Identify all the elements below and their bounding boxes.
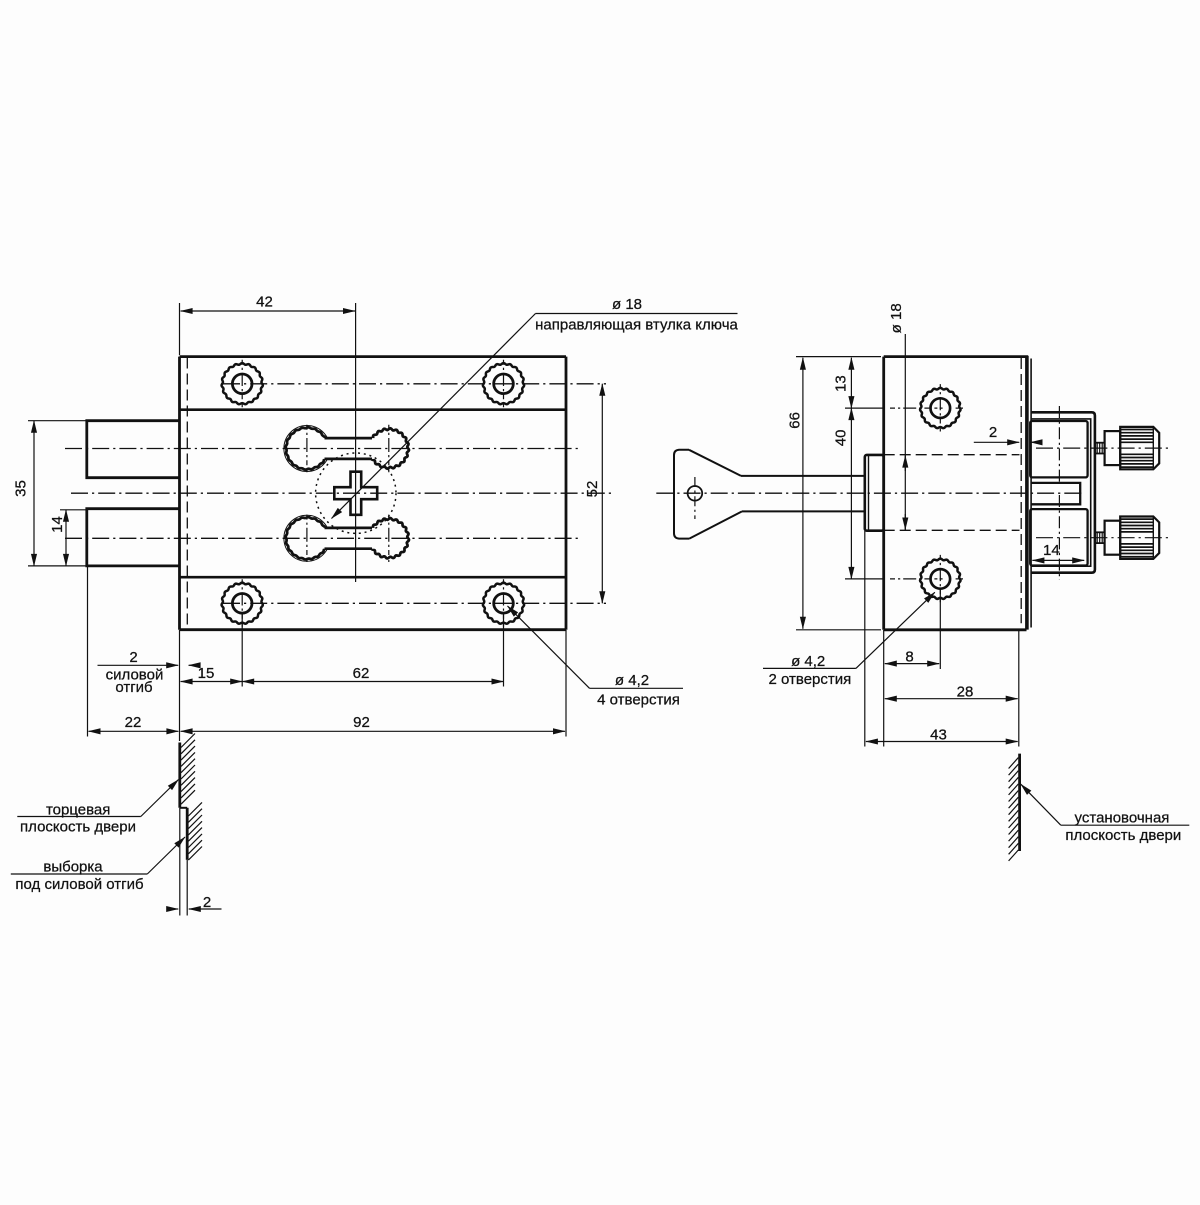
dimension 14 (lower prong) bbox=[49, 510, 86, 566]
dimension 14 (block width) bbox=[1032, 542, 1084, 560]
dimension 15 bbox=[181, 665, 243, 682]
svg-text:ø 4,2: ø 4,2 bbox=[615, 672, 649, 689]
right view: lock body side bbox=[884, 357, 1028, 630]
hatching mounting wall bbox=[1009, 758, 1019, 861]
svg-text:плоскость двери: плоскость двери bbox=[1065, 827, 1181, 844]
dimension 2 (power bend) bbox=[98, 649, 200, 696]
dimension 13 bbox=[832, 358, 882, 408]
screw hole bottom-left (o4.2) bbox=[222, 579, 263, 627]
leader o18 guide bushing bbox=[332, 296, 739, 519]
screw hole top-right (o4.2) bbox=[483, 360, 524, 408]
center line upper keyhole row bbox=[65, 448, 581, 450]
hidden line body right face bbox=[1020, 358, 1022, 623]
left view: top strip fold line bbox=[180, 408, 567, 411]
lower block center lines bbox=[1058, 495, 1060, 580]
screw hole bottom-right (o4.2) bbox=[483, 579, 524, 627]
svg-text:ø 4,2: ø 4,2 bbox=[791, 653, 825, 670]
guide bushing dotted circle o18 bbox=[316, 453, 396, 533]
leader mounting plane label bbox=[1021, 784, 1190, 844]
bolt upper prong bbox=[87, 421, 180, 478]
dimension 2 (recess depth) bbox=[170, 894, 222, 911]
key head bbox=[674, 450, 742, 539]
svg-text:43: 43 bbox=[930, 726, 947, 743]
center line top screw row bbox=[223, 383, 606, 385]
screw hole top-left (o4.2) bbox=[222, 360, 263, 408]
svg-text:торцевая: торцевая bbox=[46, 802, 110, 819]
svg-text:2: 2 bbox=[203, 894, 211, 911]
dimension 62 bbox=[242, 614, 503, 687]
svg-text:42: 42 bbox=[256, 294, 273, 311]
left view: lock body front bbox=[180, 357, 567, 630]
svg-text:отгиб: отгиб bbox=[115, 679, 152, 696]
dimension 66 bbox=[787, 357, 882, 630]
leader o4.2 two holes bbox=[763, 592, 935, 688]
svg-text:28: 28 bbox=[957, 684, 974, 701]
mounting plane wall bbox=[1018, 754, 1021, 851]
mounting plate edge (thick) bbox=[1025, 356, 1029, 630]
svg-text:плоскость двери: плоскость двери bbox=[20, 819, 136, 836]
svg-text:2: 2 bbox=[129, 649, 137, 666]
svg-text:направляющая втулка ключа: направляющая втулка ключа bbox=[535, 317, 738, 334]
dimension 52 bbox=[584, 384, 602, 604]
bolt lower prong bbox=[87, 509, 180, 566]
svg-text:52: 52 bbox=[584, 481, 601, 498]
dimension 8 bbox=[885, 589, 941, 670]
svg-text:14: 14 bbox=[1043, 542, 1060, 559]
svg-text:4 отверстия: 4 отверстия bbox=[597, 692, 680, 709]
hidden line bushing bottom bbox=[884, 529, 1020, 531]
mounting plate inner edge bbox=[1030, 359, 1032, 628]
center line bottom screw row bbox=[223, 602, 606, 604]
left view: hidden bend line bbox=[186, 358, 188, 630]
svg-text:под силовой отгиб: под силовой отгиб bbox=[15, 876, 143, 893]
key shaft bottom bbox=[742, 510, 864, 512]
key shaft top bbox=[741, 475, 864, 477]
dimension 40 bbox=[832, 408, 882, 579]
latch bracket outer bbox=[1031, 412, 1095, 572]
upper slider block bbox=[1030, 421, 1087, 477]
dimension 43 bbox=[865, 531, 1018, 747]
vertical center/extension line through cross bbox=[355, 303, 357, 582]
screw hole lower right view (o4.2) bbox=[890, 555, 963, 603]
upper block center lines bbox=[1058, 406, 1060, 485]
hatching door end plane bbox=[181, 734, 195, 805]
door end plane (wall) bbox=[180, 743, 187, 860]
extension lines below wall bbox=[180, 808, 187, 916]
key cross aperture bbox=[334, 472, 377, 515]
latch bracket inner bbox=[1031, 419, 1091, 566]
svg-text:ø 18: ø 18 bbox=[612, 296, 642, 313]
screw hole upper right view (o4.2) bbox=[890, 384, 963, 432]
bolt bar cross-section bbox=[1031, 483, 1080, 504]
leader door end plane label bbox=[17, 780, 178, 836]
guide bushing side view bbox=[865, 455, 884, 531]
lower slider block bbox=[1030, 509, 1087, 565]
dimension 2 (plate gap) bbox=[974, 424, 1038, 442]
lower knurled knob screw bbox=[1036, 517, 1169, 559]
svg-text:13: 13 bbox=[832, 375, 849, 392]
svg-text:выборка: выборка bbox=[43, 859, 103, 876]
center line lower keyhole row bbox=[65, 537, 581, 539]
dimension 28 bbox=[884, 630, 1019, 747]
dimension o18 (right) bbox=[888, 303, 905, 530]
leader o4.2 four holes bbox=[508, 606, 684, 709]
svg-text:40: 40 bbox=[832, 430, 849, 447]
dimension 42 bbox=[180, 294, 356, 356]
key ring hole bbox=[688, 477, 703, 519]
main horizontal center line left view bbox=[71, 492, 611, 494]
svg-text:установочная: установочная bbox=[1075, 810, 1170, 827]
svg-text:92: 92 bbox=[353, 714, 370, 731]
svg-text:22: 22 bbox=[125, 714, 142, 731]
dimension 92 bbox=[180, 630, 567, 741]
svg-text:2: 2 bbox=[989, 424, 997, 441]
svg-text:ø 18: ø 18 bbox=[888, 303, 905, 333]
keyhole slot lower bbox=[284, 515, 409, 562]
main horizontal center line right view bbox=[656, 492, 1085, 494]
dimension 35 bbox=[13, 421, 87, 566]
svg-text:35: 35 bbox=[13, 480, 30, 497]
svg-text:15: 15 bbox=[198, 665, 215, 682]
hatching recess area bbox=[188, 802, 202, 860]
svg-text:8: 8 bbox=[905, 649, 913, 666]
svg-text:66: 66 bbox=[787, 412, 804, 429]
svg-text:2 отверстия: 2 отверстия bbox=[769, 671, 852, 688]
svg-text:62: 62 bbox=[353, 665, 370, 682]
dimension 22 bbox=[88, 566, 179, 737]
hidden line bushing top bbox=[884, 454, 1020, 456]
upper knurled knob screw bbox=[1036, 427, 1169, 469]
keyhole slot upper bbox=[284, 425, 409, 472]
left view: bottom strip fold line bbox=[180, 576, 567, 579]
svg-text:14: 14 bbox=[49, 516, 66, 533]
leader recess label bbox=[11, 837, 185, 893]
